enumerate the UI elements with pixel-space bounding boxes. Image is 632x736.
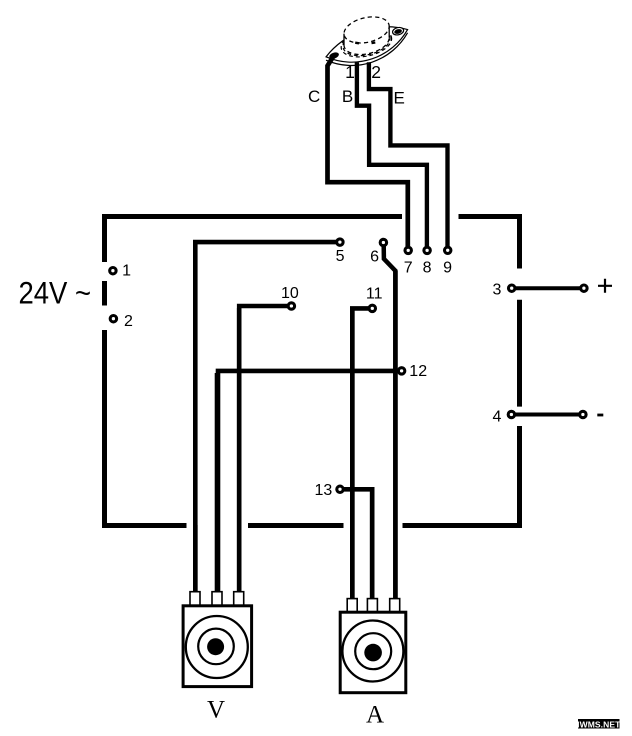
mounting hole right: [392, 26, 405, 36]
svg-text:24V ~: 24V ~: [19, 275, 92, 311]
can bottom front arc: [344, 38, 389, 55]
ammeter A wires: [352, 271, 395, 604]
svg-text:6: 6: [370, 249, 379, 266]
terminal 3 output end: [581, 285, 587, 291]
plus symbol: [598, 279, 612, 293]
svg-text:B: B: [342, 87, 353, 106]
terminal 6: [380, 239, 386, 245]
terminal 1: [110, 268, 116, 274]
wire terminal 12 to V meter: [218, 371, 402, 598]
ammeter A outer circle: [342, 621, 403, 682]
voltmeter V inner circle: [198, 629, 234, 665]
terminal 3: [509, 285, 515, 291]
svg-text:2: 2: [371, 62, 381, 82]
box outline top-right: [459, 217, 520, 269]
svg-text:1: 1: [122, 263, 131, 280]
box outline bottom-right corner: [403, 426, 520, 526]
terminal 11: [369, 305, 375, 311]
svg-text:A: A: [366, 702, 384, 729]
wire E emitter pin2 to terminal 9: [369, 62, 448, 247]
box outline left lower + bottom-left: [105, 330, 187, 526]
ammeter A inner circle: [355, 633, 391, 669]
watermark IWMS.NET: [577, 719, 621, 729]
flange thickness edge: [326, 33, 413, 76]
mounting hole left (solder blob): [328, 51, 339, 60]
box outline top-left: [105, 217, 403, 263]
svg-text:2: 2: [124, 313, 133, 330]
box outline left mid segment: [102, 281, 107, 306]
wire C collector from case to terminal 7: [328, 54, 408, 247]
wire B base pin1 to terminal 8: [357, 62, 427, 247]
svg-text:3: 3: [492, 282, 501, 299]
voltmeter V outer circle: [186, 616, 248, 678]
terminal 4 output end: [580, 411, 586, 417]
flange outline: [322, 17, 413, 72]
terminal 4: [508, 411, 514, 417]
wire terminal 5 to V meter: [195, 242, 340, 598]
wire terminal 10 to V meter: [239, 306, 291, 598]
transistor Q1 TO-3 package: [322, 13, 413, 76]
svg-text:V: V: [207, 697, 225, 724]
terminal 10: [288, 303, 294, 309]
svg-text:12: 12: [409, 363, 427, 380]
can silhouette: [344, 17, 389, 55]
svg-text:10: 10: [281, 285, 299, 302]
can side lines: [344, 26, 389, 45]
ammeter A terminal tabs: [347, 599, 400, 613]
terminal 5: [337, 239, 343, 245]
svg-text:IWMS.NET: IWMS.NET: [577, 719, 621, 729]
terminal 13: [337, 486, 343, 492]
terminal 2: [110, 316, 116, 322]
pin marks on can front arc: [355, 41, 375, 44]
ammeter A center dot: [364, 644, 382, 662]
svg-text:13: 13: [315, 482, 333, 499]
terminal 12: [398, 368, 404, 374]
box outline right mid segment: [517, 300, 522, 407]
voltmeter V wires: [195, 308, 239, 598]
wire terminal 6 to A meter: [384, 245, 396, 604]
box outline bottom middle segment: [248, 523, 344, 528]
svg-text:1: 1: [345, 62, 355, 82]
wire terminal 13 to A meter: [340, 489, 372, 604]
terminal 9: [445, 247, 451, 253]
can base rim inner: [340, 25, 392, 60]
svg-text:8: 8: [423, 259, 432, 276]
can base rim outer: [338, 25, 394, 62]
svg-text:4: 4: [493, 408, 502, 425]
svg-text:9: 9: [443, 259, 452, 276]
terminal 7: [405, 247, 411, 253]
svg-text:E: E: [394, 88, 405, 107]
wire terminal 4 to -: [511, 413, 583, 417]
voltmeter V body: [183, 606, 252, 687]
wire terminal 11 to A meter: [352, 308, 372, 604]
can top ellipse: [341, 13, 391, 47]
svg-text:C: C: [308, 87, 320, 106]
svg-text:11: 11: [366, 285, 383, 302]
minus symbol: [597, 414, 603, 417]
wire terminal 3 to +: [512, 286, 584, 290]
svg-text:7: 7: [404, 259, 413, 276]
terminal 8: [424, 247, 430, 253]
ammeter A body: [340, 612, 406, 693]
voltmeter V center dot: [207, 638, 224, 655]
svg-text:5: 5: [336, 248, 345, 265]
voltmeter V terminal tabs: [190, 592, 244, 606]
